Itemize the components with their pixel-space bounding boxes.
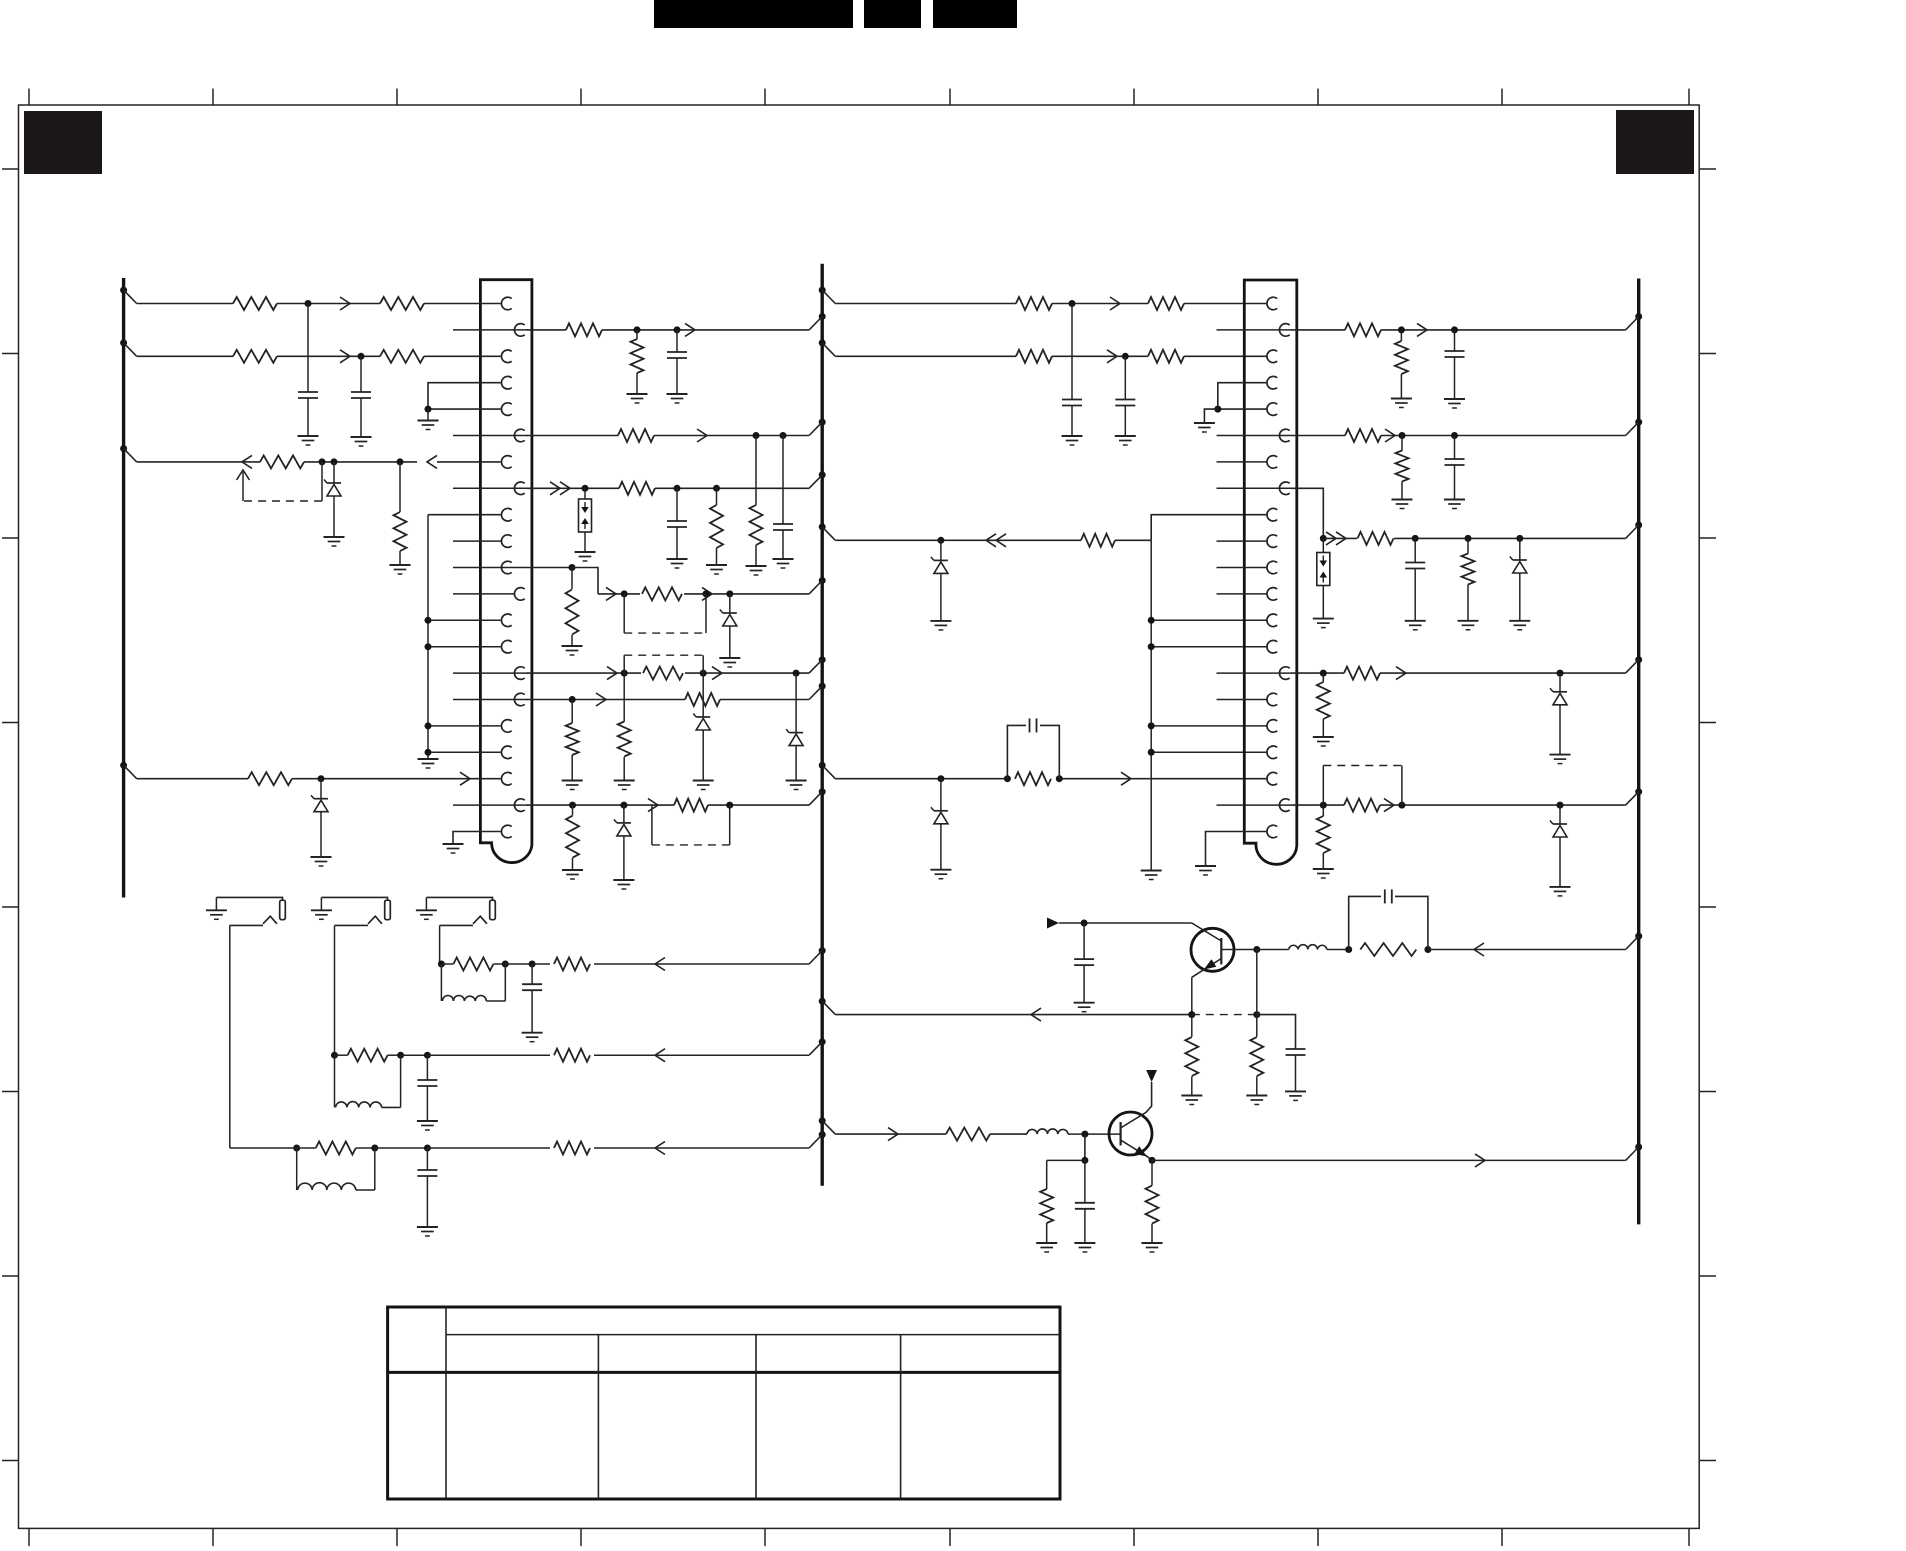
arrow row1 <box>340 297 350 310</box>
wire D2 ground lead <box>320 812 322 857</box>
wire R37 lead <box>1322 805 1324 816</box>
wire CN1 ground rail vertical <box>427 515 429 758</box>
wire CN2 pin 17 lead <box>1151 725 1266 727</box>
node row3 junction <box>358 353 365 360</box>
resistor R3 <box>233 350 277 363</box>
node cn2row19 jb <box>1004 775 1011 782</box>
ground CN1 rail <box>418 759 439 768</box>
resistor R33 <box>1462 554 1475 585</box>
arrow cn2row1 <box>1110 297 1120 310</box>
node bus join row15 <box>809 656 826 673</box>
wire cn2row1 <box>835 303 1266 305</box>
node jackrow2 jc <box>424 1052 431 1059</box>
connector CN1 pin 9 contact <box>501 508 511 521</box>
signal marker Q2 collector <box>1146 1070 1157 1082</box>
node jackrow3 jb <box>502 961 509 968</box>
table header row line <box>446 1334 1060 1336</box>
ground R9 <box>627 394 648 403</box>
arrow jackrow1 <box>655 1142 665 1155</box>
wire D6 ground lead <box>623 836 625 880</box>
connector CN1 body <box>480 280 532 863</box>
wire D5 lead <box>795 673 797 733</box>
resistor R14 <box>566 590 579 635</box>
ground R38 <box>1181 1096 1202 1105</box>
resistor R23 <box>1148 297 1184 310</box>
connector CN1 pin 15 contact <box>514 667 524 680</box>
capacitor jackrow2 C <box>417 1055 437 1121</box>
connector CN2 pin 8 contact <box>1279 482 1289 495</box>
wire CN1 pin 6 stub <box>453 435 528 437</box>
table column line 4 <box>900 1335 902 1499</box>
ground R6 <box>390 565 411 574</box>
arrow row19 <box>460 772 470 785</box>
node bus tap cn2row10 <box>819 523 836 540</box>
connector CN1 pin 8 contact <box>514 482 524 495</box>
wire CN2 pin 14 lead <box>1151 646 1266 648</box>
resistor R42 <box>1146 1186 1159 1224</box>
wire jackrow1 left stub <box>230 1147 297 1149</box>
wire jackrow1 right <box>427 1147 809 1149</box>
wire cn2row10 <box>835 539 1151 541</box>
node row2 jb <box>674 326 681 333</box>
connector CN2 pin 6 contact <box>1279 429 1289 442</box>
redacted title bar 1 <box>654 0 853 28</box>
bottom edge tick marks <box>29 1528 1689 1546</box>
wire CN1 pin 17 lead <box>428 725 501 727</box>
node bus join row8 <box>809 471 826 488</box>
wire C4 ground lead <box>782 530 784 559</box>
wire C2 ground lead <box>360 398 362 437</box>
arrow cn2row6 <box>1385 429 1395 442</box>
ground R31 <box>1392 500 1413 509</box>
ground C9 <box>1444 399 1465 408</box>
wire C5 ground lead <box>676 527 678 559</box>
wire row15 <box>527 672 809 674</box>
resistor jackrow3 R <box>441 958 505 971</box>
wire C3 lead <box>676 330 678 352</box>
wire CN1 pin 16 stub <box>453 699 528 701</box>
wire CN1 pin21 lead <box>453 832 501 844</box>
wire q1row left <box>835 1014 1192 1016</box>
table thick divider line <box>388 1371 1060 1374</box>
ground D3 <box>719 658 740 667</box>
node CN2 rail pin 13 <box>1148 617 1155 624</box>
ground R11 <box>746 566 767 575</box>
wire CN1 pin 13 lead <box>428 619 501 621</box>
node row20 jc <box>726 802 733 809</box>
wire C6 ground lead <box>1071 406 1073 437</box>
wire cn2row8 jog <box>1291 488 1323 538</box>
connector CN1 pin 18 contact <box>501 746 511 759</box>
wire R35 ground lead <box>1322 719 1324 737</box>
wire R39 ground lead <box>1256 1076 1258 1095</box>
connector CN2 pin 11 contact <box>1267 561 1277 574</box>
diode D11 zener <box>1550 821 1567 838</box>
node Q2 base junction <box>1081 1131 1088 1138</box>
connector CN2 pin 18 contact <box>1267 746 1277 759</box>
transistor Q2 <box>1109 1082 1152 1160</box>
node row2 ja <box>634 326 641 333</box>
wire row3 <box>137 355 501 357</box>
wire row7 <box>137 461 501 463</box>
node cn2row15 jb <box>1557 670 1564 677</box>
wire C13 ground lead <box>1295 1055 1297 1091</box>
node cn2row15 ja <box>1320 670 1327 677</box>
table column line 1 <box>445 1307 447 1499</box>
resistor R13 <box>710 505 723 548</box>
node pin11 junction <box>569 564 576 571</box>
node q1row jb <box>1253 1011 1260 1018</box>
node CN1 rail pin 14 <box>425 643 432 650</box>
wire row16 <box>527 699 809 701</box>
ground jackrow3 C <box>522 1033 543 1042</box>
arrow cn2row8 double <box>1326 532 1346 545</box>
node bus join row16 <box>809 683 826 700</box>
wire R17 lead <box>623 673 625 722</box>
wire R42 ground lead <box>1151 1224 1153 1243</box>
wire C11 lead <box>1414 538 1416 562</box>
node q2 bias junction <box>1081 1157 1088 1164</box>
wire cn2row15 right <box>1291 672 1626 674</box>
ground C5 <box>667 559 688 568</box>
wire C9 ground lead <box>1454 357 1456 399</box>
wire C6 lead <box>1071 304 1073 400</box>
wire jack J2 drop <box>334 925 336 1055</box>
wire C7 lead <box>1124 356 1126 399</box>
node jackrow1 jc <box>424 1145 431 1152</box>
suppressor TVS2 <box>1317 553 1330 586</box>
wire feedback solid left <box>242 472 244 501</box>
wire CN2 ground rail vertical <box>1150 540 1152 869</box>
wire C15 ground lead <box>1084 1209 1086 1243</box>
ground C10 <box>1444 500 1465 509</box>
wire D2 lead <box>320 779 322 799</box>
node rbus join row20 <box>1626 788 1643 805</box>
diode D2 zener <box>311 795 328 812</box>
wire jackrow2 right <box>427 1054 809 1056</box>
ground R21 <box>562 870 583 879</box>
resistor R22 <box>1016 297 1052 310</box>
node bus tap cn2row3 <box>819 339 836 356</box>
wire CN1 pin 14 lead <box>428 646 501 648</box>
node row6 ja <box>753 432 760 439</box>
wire R31 lead <box>1401 436 1403 451</box>
wire C2 lead <box>360 356 362 392</box>
inductor jackrow3 L <box>441 964 505 1001</box>
resistor R19 <box>566 723 579 755</box>
capacitor C7 <box>1115 400 1135 406</box>
connector CN2 pin 12 contact <box>1267 588 1277 601</box>
wire C1 lead <box>307 304 309 393</box>
inductor L5 <box>1027 1129 1121 1134</box>
wire jack J1 drop <box>229 925 231 1148</box>
wire CN2 pin9 lead <box>1151 515 1266 541</box>
arrow row3 <box>340 350 350 363</box>
node CN2 pin4/5 junction <box>1214 406 1221 413</box>
connector CN1 pin 12 contact <box>514 588 524 601</box>
resistor R1 <box>233 297 277 310</box>
wire CN2 pin 16 stub <box>1217 699 1268 701</box>
node cn2row6 ja <box>1399 432 1406 439</box>
node row19 junction <box>318 775 325 782</box>
connector CN2 pin 20 contact <box>1279 799 1289 812</box>
connector CN1 pin 11 contact <box>501 561 511 574</box>
arrow row16 <box>596 693 606 706</box>
wire D10 lead <box>1559 673 1561 692</box>
wire R9 lead <box>636 330 638 339</box>
connector CN1 pin 5 contact <box>501 403 511 416</box>
resistor R26 <box>1081 534 1115 547</box>
resistor R34 <box>1344 667 1380 680</box>
ground C6 <box>1062 436 1083 445</box>
connector CN2 pin 2 contact <box>1279 324 1289 337</box>
diode D4 zener <box>693 714 710 731</box>
wire CN1 pin 18 lead <box>428 751 501 753</box>
ground CN2 rail <box>1141 871 1162 880</box>
wire row20 <box>527 804 809 806</box>
arrow cn2row15 <box>1396 667 1406 680</box>
node CN1 rail pin 18 <box>425 749 432 756</box>
node row20 ja <box>569 802 576 809</box>
ground D4 <box>693 781 714 790</box>
corner label block top-right <box>1616 110 1694 174</box>
node cn2row8 jb <box>1412 535 1419 542</box>
ground D10 <box>1550 755 1571 764</box>
wire CN2 pin4 lead <box>1218 383 1267 409</box>
ground R33 <box>1458 621 1479 630</box>
resistor R18 <box>685 693 720 706</box>
wire q2 base bias <box>1084 1134 1086 1160</box>
ground C12 <box>1074 1003 1095 1012</box>
wire row15 dashed loop <box>624 655 703 673</box>
arrow cn2row19 <box>1121 772 1131 785</box>
wire CN1 pin 2 stub <box>453 329 528 331</box>
node CN1 rail pin 13 <box>425 617 432 624</box>
wire D9 lead <box>1519 538 1521 560</box>
capacitor C4 <box>773 524 793 530</box>
resistor R41 <box>946 1128 990 1141</box>
arrow row20 <box>648 799 658 812</box>
ground R42 <box>1142 1243 1163 1252</box>
resistor R27 <box>1015 772 1051 785</box>
resistor jackrow1 R2 <box>554 1142 590 1155</box>
capacitor C6 <box>1062 400 1082 406</box>
resistor R4 <box>380 350 424 363</box>
node row8 jb <box>674 485 681 492</box>
node CN2 rail pin 17 <box>1148 722 1155 729</box>
arrow feedback up <box>237 470 250 480</box>
resistor R11 <box>750 505 763 545</box>
connector CN1 pin 16 contact <box>514 693 524 706</box>
node bus join row20 <box>809 788 826 805</box>
resistor R24 <box>1016 350 1052 363</box>
node jackrow1 jb <box>371 1145 378 1152</box>
capacitor jackrow1 C <box>417 1148 437 1227</box>
wire q1row dashed <box>1192 1014 1257 1016</box>
node cn2row20 jc <box>1557 802 1564 809</box>
resistor R9 <box>631 339 644 373</box>
wire CN2 pin5 ground lead <box>1204 409 1217 423</box>
wire C11 ground lead <box>1414 569 1416 621</box>
wire cn2row19 <box>835 778 1266 780</box>
table column line 3 <box>755 1335 757 1499</box>
arrow row15 a <box>607 667 617 680</box>
node bus tap row1 <box>120 287 137 304</box>
wire R17 ground lead <box>623 757 625 781</box>
node cn2row8 ja <box>1320 535 1327 542</box>
wire CN1 pin 20 stub <box>453 804 528 806</box>
diode D8 zener <box>931 807 948 824</box>
wire D10 ground lead <box>1559 705 1561 755</box>
signal marker Q1 base <box>1047 918 1059 929</box>
resistor jackrow3 R2 <box>554 958 590 971</box>
node cn2row3 j <box>1122 353 1129 360</box>
node bus tap row3 <box>120 339 137 356</box>
wire CN2 pin 13 lead <box>1151 619 1266 621</box>
left supply bus <box>122 278 125 898</box>
ground D11 <box>1550 887 1571 896</box>
ground R29 <box>1391 399 1412 408</box>
node bus join row12 <box>809 577 826 594</box>
resistor R16 <box>643 667 683 680</box>
wire C14 loop <box>1349 896 1428 949</box>
wire C4 lead <box>782 436 784 525</box>
connector CN1 pin 10 contact <box>501 535 511 548</box>
node rbus join row6 <box>1626 419 1643 436</box>
wire CN1 pin5 lead <box>428 408 501 410</box>
node cn2row1 j <box>1069 300 1076 307</box>
resistor R29 <box>1395 341 1408 374</box>
node jackrow2 jb <box>397 1052 404 1059</box>
node rc ja <box>1345 946 1352 953</box>
wire R39 lead <box>1256 1015 1258 1037</box>
diode D10 zener <box>1550 688 1567 705</box>
wire R29 lead <box>1400 330 1402 341</box>
connector CN1 pin 17 contact <box>501 720 511 733</box>
capacitor C14 <box>1385 889 1392 903</box>
wire D4 ground lead <box>702 730 704 781</box>
capacitor C2 <box>351 392 371 398</box>
ground C7 <box>1115 436 1136 445</box>
wire pin11 jog <box>572 568 598 594</box>
node bus join jackrow1 <box>809 1131 826 1148</box>
wire D4 lead <box>702 673 704 717</box>
ground CN1 pin21 <box>443 844 464 853</box>
arrow row15 b <box>712 667 722 680</box>
wire D5 ground lead <box>795 746 797 781</box>
wire cn2row6 right <box>1291 435 1626 437</box>
wire D11 ground lead <box>1559 837 1561 887</box>
connector CN2 pin 14 contact <box>1267 640 1277 653</box>
arrow cn2row3 <box>1107 350 1117 363</box>
arrow row2 <box>685 323 695 336</box>
connector CN2 pin 3 contact <box>1267 350 1277 363</box>
node row7 junction c <box>397 458 404 465</box>
wire q2row <box>835 1133 1027 1135</box>
wire C8 loop <box>1007 725 1059 778</box>
wire C10 ground lead <box>1454 465 1456 500</box>
wire R31 ground lead <box>1401 481 1403 499</box>
node bus tap q1row <box>819 998 836 1015</box>
wire CN2 pin 7 stub <box>1217 461 1268 463</box>
ground C2 <box>351 437 372 446</box>
ground R39 <box>1246 1096 1267 1105</box>
node CN1 rail pin 17 <box>425 722 432 729</box>
wire CN1 pin 12 stub <box>453 593 515 595</box>
diode D7 zener <box>931 557 948 574</box>
wire D7 ground lead <box>940 573 942 621</box>
capacitor C15 <box>1075 1203 1095 1209</box>
resistor R36 <box>1344 799 1380 812</box>
wire cn2row8 right <box>1323 537 1625 539</box>
node cn2row20 ja <box>1320 802 1327 809</box>
node row12 jb <box>703 590 710 597</box>
resistor R7 <box>248 772 292 785</box>
wire feedback dashed <box>243 500 322 502</box>
node bus tap cn2row19 <box>819 762 836 779</box>
capacitor C11 <box>1405 563 1425 569</box>
ground D1 <box>324 537 345 546</box>
ground C15 <box>1074 1243 1095 1252</box>
wire Q1 base row <box>1059 922 1192 924</box>
capacitor C8 <box>1030 718 1037 732</box>
ground C13 <box>1285 1091 1306 1100</box>
resistor jackrow2 R <box>335 1049 401 1062</box>
node jackrow1 ja <box>293 1145 300 1152</box>
node bus tap row19 <box>120 762 137 779</box>
wire row19 <box>137 778 501 780</box>
node bus join row6 <box>809 419 826 436</box>
ground C11 <box>1405 621 1426 630</box>
connector CN1 pin 3 contact <box>501 350 511 363</box>
node bus tap q2row <box>819 1117 836 1134</box>
wire R33 lead <box>1467 538 1469 553</box>
arrow cn2row20 <box>1384 799 1394 812</box>
node row7 junction b <box>331 458 338 465</box>
node q1row ja <box>1188 1011 1195 1018</box>
resistor R37 <box>1317 816 1330 853</box>
arrow q1row <box>1031 1008 1041 1021</box>
node row15 ja <box>621 670 628 677</box>
connector CN1 pin 14 contact <box>501 640 511 653</box>
capacitor C13 <box>1286 1049 1306 1055</box>
connector CN1 pin 20 contact <box>514 799 524 812</box>
wire D8 lead <box>940 779 942 811</box>
wire row2 right <box>527 329 809 331</box>
arrow jackrow3 <box>655 958 665 971</box>
ground C1 <box>298 436 319 445</box>
right supply bus <box>1637 279 1640 1225</box>
node cn2row6 jb <box>1451 432 1458 439</box>
wire row1 <box>137 303 501 305</box>
node row12 ja <box>621 590 628 597</box>
wire row20 dashed loop <box>652 805 730 845</box>
connector CN1 pin 4 contact <box>501 376 511 389</box>
wire D1 lead <box>333 462 335 483</box>
wire q2 emitter row <box>1152 1159 1626 1161</box>
wire D11 lead <box>1559 805 1561 824</box>
ground C3 <box>667 394 688 403</box>
node row20 jb <box>620 802 627 809</box>
wire CN2 pin5 lead <box>1218 408 1267 410</box>
ground R37 <box>1313 869 1334 878</box>
resistor R28 <box>1345 323 1381 336</box>
wire CN2 pin 10 stub <box>1217 540 1268 542</box>
ground CN1 pin5 <box>418 409 439 429</box>
corner label block top-left <box>24 111 102 174</box>
resistor R40 <box>1360 943 1416 956</box>
wire R43 ground lead <box>1046 1223 1048 1243</box>
